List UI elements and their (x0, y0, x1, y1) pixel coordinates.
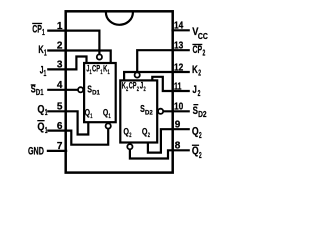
svg-text:J: J (192, 84, 197, 96)
svg-text:1: 1 (109, 113, 111, 120)
svg-text:D2: D2 (145, 109, 153, 116)
svg-text:2: 2 (198, 89, 201, 98)
svg-text:10: 10 (174, 102, 184, 113)
svg-text:D1: D1 (92, 90, 100, 97)
svg-text:8: 8 (175, 141, 181, 152)
svg-text:3: 3 (57, 60, 63, 71)
svg-text:2: 2 (57, 41, 63, 52)
wire pin3 J1 to FF1 (47, 57, 86, 70)
wire pin1 CP1 to FF1 clock (47, 31, 99, 55)
bubble FF1 clock (97, 54, 102, 59)
wire pin7 GND (47, 150, 67, 152)
svg-text:1: 1 (57, 21, 63, 32)
svg-text:Q: Q (192, 125, 199, 137)
svg-text:2: 2 (144, 86, 146, 93)
svg-text:1: 1 (108, 69, 110, 76)
svg-text:Q: Q (103, 108, 108, 118)
IC body U1 (66, 11, 173, 172)
svg-text:2: 2 (148, 132, 150, 139)
svg-text:CP: CP (32, 24, 42, 36)
wire pin2 K1 to FF1 (47, 51, 111, 63)
wire pin9 Q2 (148, 129, 190, 152)
wire pin12 K2 to FF2 (124, 72, 190, 81)
svg-text:Q: Q (142, 127, 148, 137)
svg-text:Q: Q (85, 108, 90, 118)
svg-text:D1: D1 (36, 88, 44, 97)
svg-text:1: 1 (42, 28, 45, 37)
wire pin10 SD2 (163, 110, 190, 112)
flip-flop FF1 box (84, 63, 116, 122)
svg-text:1: 1 (44, 49, 47, 58)
svg-text:2: 2 (198, 69, 201, 78)
flip-flop FF2 box (120, 80, 157, 142)
svg-text:1: 1 (45, 108, 48, 117)
svg-text:CC: CC (198, 32, 208, 41)
svg-text:GND: GND (28, 146, 44, 158)
svg-text:4: 4 (57, 80, 63, 91)
wire pin11 J2 to FF2 (152, 77, 190, 91)
wire pin13 CP2 to FF2 clock (137, 50, 190, 72)
svg-text:D2: D2 (198, 110, 207, 119)
svg-text:Q: Q (37, 103, 44, 115)
svg-text:CP: CP (129, 81, 137, 91)
wire pin5 Q1 (47, 111, 88, 134)
bubble FF2 SD2 (158, 109, 163, 114)
bubble FF1 Q1bar (106, 123, 111, 128)
svg-text:2: 2 (137, 86, 139, 93)
svg-text:13: 13 (174, 41, 184, 52)
wire pin14 VCC (171, 29, 189, 31)
bubble FF2 Q2bar (127, 144, 132, 149)
svg-text:12: 12 (174, 62, 184, 73)
svg-text:CP: CP (92, 64, 100, 74)
wire pin8 Q2bar (130, 149, 190, 158)
svg-text:1: 1 (45, 126, 48, 135)
svg-text:11: 11 (174, 81, 182, 92)
svg-text:14: 14 (174, 21, 184, 32)
svg-text:6: 6 (57, 121, 63, 132)
svg-text:Q: Q (192, 145, 199, 157)
wire pin6 Q1bar (47, 129, 108, 145)
notch (pin-1 index) (106, 13, 133, 25)
svg-text:5: 5 (57, 102, 63, 113)
svg-text:9: 9 (175, 120, 181, 131)
svg-text:Q: Q (37, 121, 44, 133)
svg-text:2: 2 (199, 131, 202, 140)
svg-text:2: 2 (129, 132, 131, 139)
svg-text:2: 2 (203, 49, 206, 58)
svg-text:2: 2 (199, 151, 202, 160)
svg-text:1: 1 (44, 69, 47, 78)
svg-text:K: K (192, 64, 198, 76)
svg-text:CP: CP (193, 44, 203, 56)
bubble FF2 clock (135, 72, 140, 77)
bubble FF1 SD1 (78, 87, 83, 92)
svg-text:Q: Q (123, 127, 129, 137)
svg-text:7: 7 (57, 141, 63, 152)
wire pin4 SD1 (47, 89, 78, 91)
svg-text:1: 1 (90, 113, 92, 120)
